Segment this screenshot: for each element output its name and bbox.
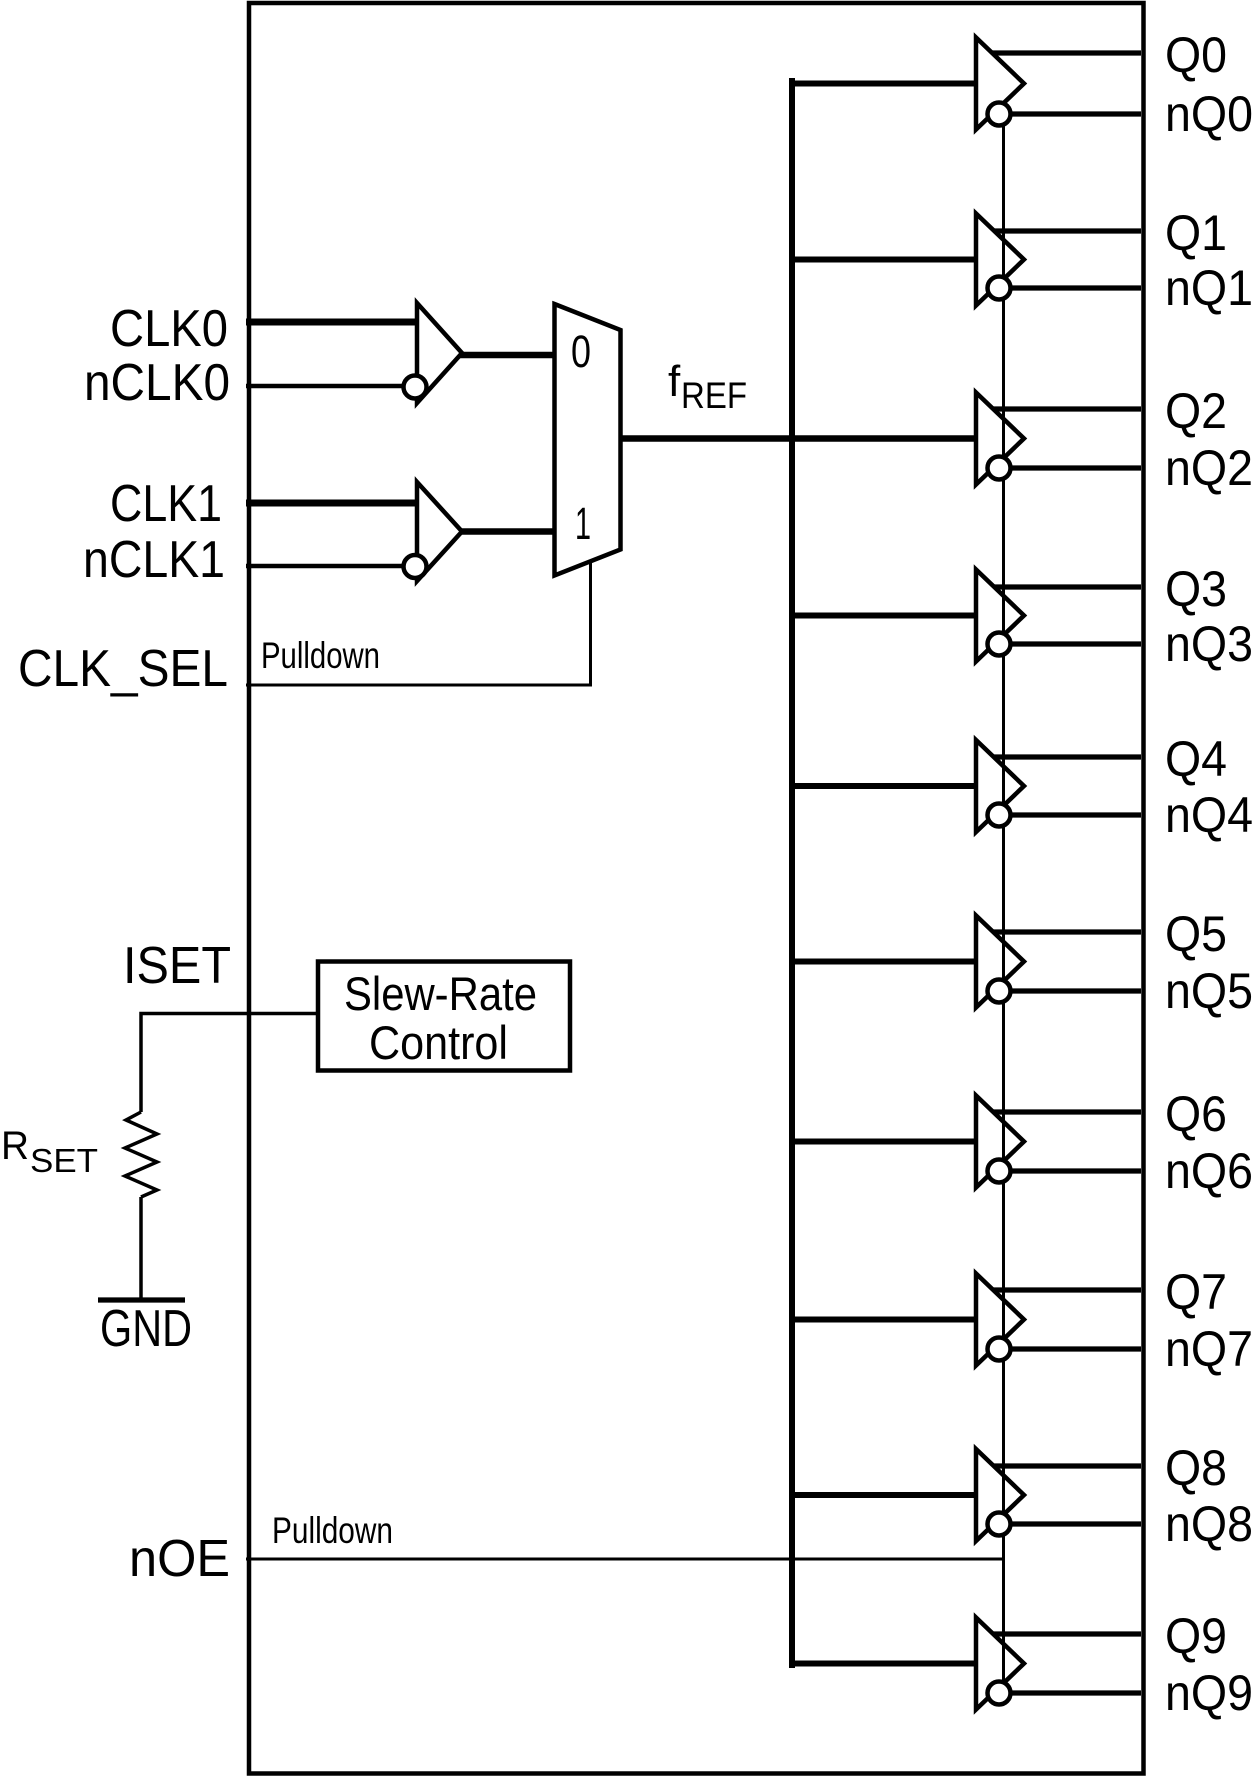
wire U2 output to mux input 0 [460,352,556,359]
svg-text:Q8: Q8 [1165,1440,1227,1496]
wire Q8 output [994,1463,1141,1468]
enable bubble on output buffer B8 [988,1513,1011,1536]
svg-text:R: R [1,1124,29,1168]
svg-text:Q5: Q5 [1165,906,1227,962]
wire RSET to GND [139,1197,143,1300]
wire Q5 output [993,929,1141,934]
svg-text:ISET: ISET [123,937,231,995]
svg-text:Q4: Q4 [1165,731,1227,787]
wire CLK_SEL to mux select [246,561,591,685]
enable bubble on output buffer B1 [988,277,1011,300]
wire Q2 output [993,406,1141,411]
output buffer B6 (Q6/nQ6) [976,1096,1024,1188]
wire nQ2 output [999,465,1141,470]
wire bus to output buffer B5 input [792,959,976,965]
wire nCLK0 input [246,384,404,389]
resistor RSET [125,1112,157,1197]
wire nQ8 output [999,1521,1141,1526]
output buffer B7 (Q7/nQ7) [976,1274,1024,1366]
wire nQ7 output [999,1346,1141,1351]
svg-text:nQ6: nQ6 [1165,1143,1253,1199]
wire bus to output buffer B4 input [792,783,976,789]
svg-text:nQ8: nQ8 [1165,1496,1253,1552]
wire bus to output buffer B2 input [792,436,976,442]
wire ISET to Slew-Rate Control and RSET [141,1014,318,1113]
wire bus to output buffer B6 input [792,1139,976,1145]
wire nOE enable chain (vertical) [1002,114,1005,1693]
svg-text:Q0: Q0 [1165,27,1227,83]
enable bubble on output buffer B6 [988,1160,1011,1183]
svg-text:nOE: nOE [129,1530,230,1588]
wire nQ4 output [999,812,1141,817]
enable bubble on output buffer B4 [988,804,1011,827]
svg-text:Q6: Q6 [1165,1086,1227,1142]
enable bubble on output buffer B2 [988,457,1011,480]
output buffer B0 (Q0/nQ0) [976,38,1024,130]
wire Q6 output [993,1109,1141,1114]
wire bus to output buffer B1 input [792,257,976,263]
wire fREF (mux output to fanout bus / B2 input) [621,435,977,442]
wire U3 output to mux input 1 [460,528,556,535]
wire bus to output buffer B9 input [792,1661,976,1667]
enable bubble on output buffer B5 [988,980,1011,1003]
inversion bubble on nCLK0 input of U2 [404,376,427,399]
svg-text:nQ1: nQ1 [1165,260,1253,316]
ground GND [98,1297,185,1302]
svg-text:SET: SET [30,1142,98,1179]
output buffer B2 (Q2/nQ2) [976,393,1024,485]
chip outline U1 [249,3,1144,1774]
wire bus to output buffer B0 input [792,81,976,87]
svg-text:f: f [668,357,681,406]
svg-text:nQ0: nQ0 [1165,86,1253,142]
svg-text:nQ5: nQ5 [1165,963,1253,1019]
svg-text:nQ2: nQ2 [1165,440,1253,496]
svg-text:nCLK0: nCLK0 [84,354,230,412]
enable bubble on output buffer B3 [988,633,1011,656]
svg-text:Control: Control [369,1016,508,1069]
svg-text:nQ3: nQ3 [1165,616,1253,672]
svg-text:Q2: Q2 [1165,383,1227,439]
output buffer B3 (Q3/nQ3) [976,570,1024,662]
wire nQ6 output [999,1168,1141,1173]
wire Q0 output [992,50,1141,55]
wire Q9 output [993,1631,1141,1636]
wire CLK1 input [246,500,417,507]
output buffer B5 (Q5/nQ5) [976,916,1024,1008]
svg-text:GND: GND [100,1300,192,1358]
svg-text:Pulldown: Pulldown [272,1510,393,1551]
svg-text:CLK0: CLK0 [110,300,228,358]
output buffer B9 (Q9/nQ9) [976,1618,1024,1710]
wire bus to output buffer B7 input [792,1317,976,1323]
wire fanout bus (vertical) [789,78,795,1668]
input buffer U2 (CLK0/nCLK0) [417,303,462,403]
wire nQ1 output [999,285,1141,290]
wire Q1 output [994,228,1141,233]
svg-text:REF: REF [681,375,747,416]
wire CLK0 input [246,319,417,326]
wire bus to output buffer B3 input [792,613,976,619]
wire Q7 output [993,1287,1141,1292]
svg-text:nQ9: nQ9 [1165,1665,1253,1721]
wire nQ3 output [999,641,1141,646]
svg-text:Q1: Q1 [1165,205,1227,261]
wire nQ5 output [999,988,1141,993]
svg-text:CLK1: CLK1 [110,475,222,533]
svg-text:Pulldown: Pulldown [261,635,380,676]
enable bubble on output buffer B0 [988,103,1011,126]
enable bubble on output buffer B7 [988,1338,1011,1361]
svg-text:Slew-Rate: Slew-Rate [344,967,537,1020]
wire nQ9 output [999,1690,1141,1695]
wire Q3 output [994,584,1141,589]
wire nOE input [246,1558,1004,1561]
wire bus to output buffer B8 input [792,1492,976,1498]
svg-text:Q9: Q9 [1165,1608,1227,1664]
mux U4 (clock select) [555,304,621,576]
wire nQ0 output [999,111,1141,116]
output buffer B4 (Q4/nQ4) [976,740,1024,832]
enable bubble on output buffer B9 [988,1682,1011,1705]
svg-text:1: 1 [575,498,591,549]
input buffer U3 (CLK1/nCLK1) [417,482,462,581]
svg-text:Q7: Q7 [1165,1264,1227,1320]
output buffer B8 (Q8/nQ8) [976,1449,1024,1541]
svg-text:nQ7: nQ7 [1165,1321,1253,1377]
svg-text:nQ4: nQ4 [1165,787,1253,843]
svg-text:Q3: Q3 [1165,561,1227,617]
wire nCLK1 input [246,564,404,569]
svg-text:0: 0 [571,326,591,377]
output buffer B1 (Q1/nQ1) [976,214,1024,306]
wire Q4 output [994,754,1141,759]
svg-text:CLK_SEL: CLK_SEL [18,640,228,698]
svg-text:nCLK1: nCLK1 [83,531,225,589]
inversion bubble on nCLK1 input of U3 [404,555,427,578]
block Slew-Rate Control [318,962,570,1071]
